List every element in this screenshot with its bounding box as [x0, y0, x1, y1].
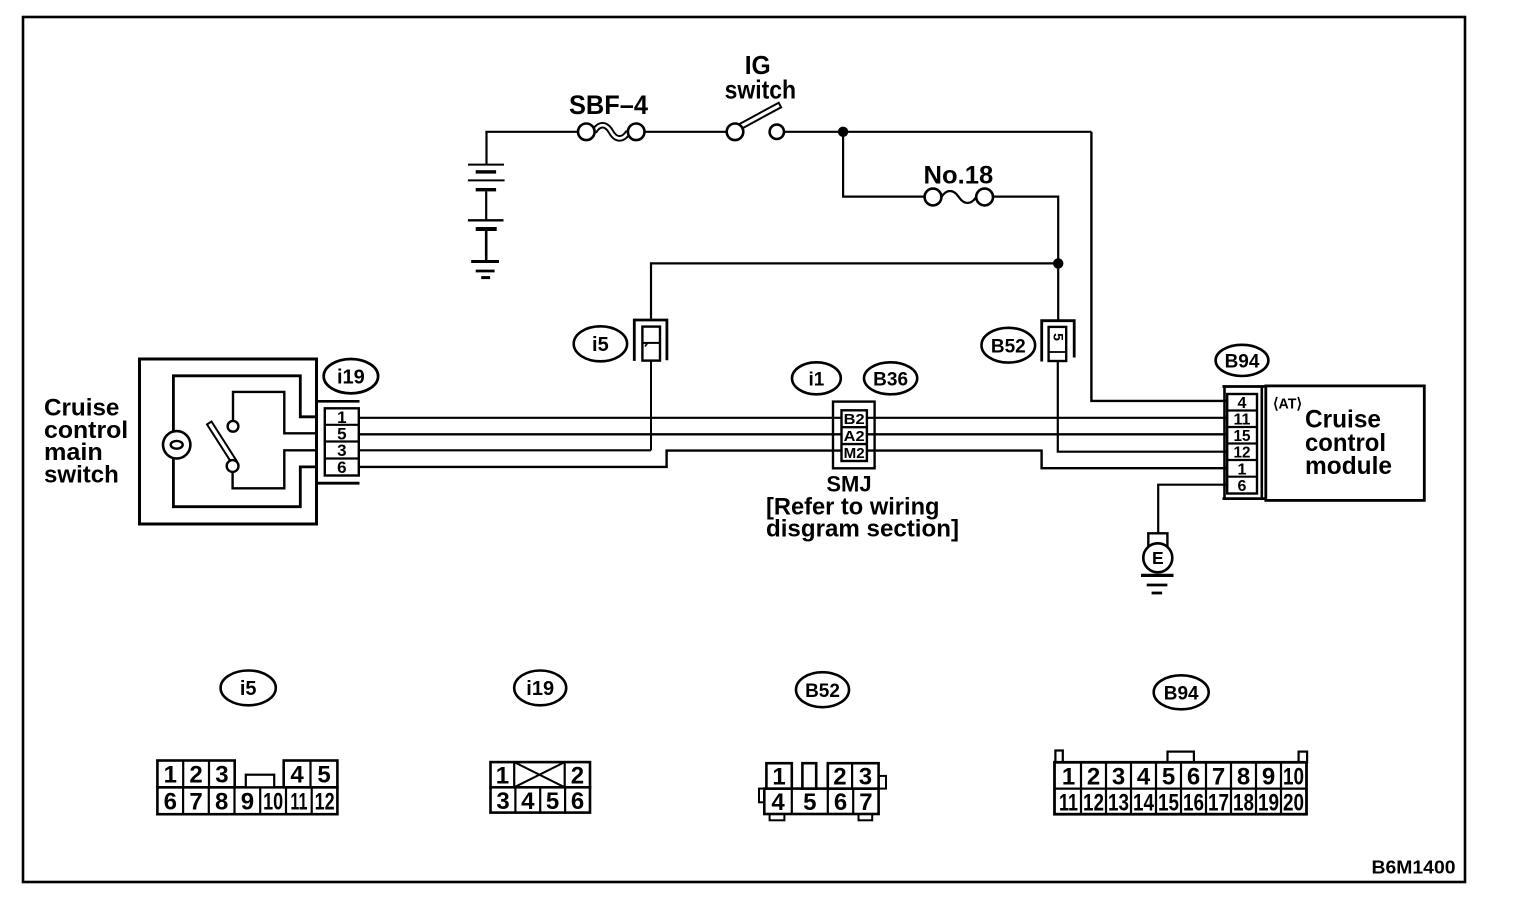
svg-text:7: 7 — [189, 789, 202, 816]
wire node down through B52 — [1057, 263, 1059, 320]
wire B52 to module pin 12 — [1058, 362, 1228, 452]
cruise control main switch outer box — [140, 359, 317, 524]
svg-text:6: 6 — [164, 789, 177, 816]
connector B52 (in-line) — [1042, 321, 1075, 362]
svg-text:6: 6 — [571, 788, 584, 815]
oval label i1 — [792, 362, 841, 394]
svg-text:SBF–4: SBF–4 — [569, 90, 648, 120]
wire module pin 6 to ground — [1158, 485, 1228, 534]
lamp (illumination bulb) — [163, 431, 190, 458]
oval label B94 — [1216, 345, 1269, 376]
svg-text:i1: i1 — [808, 370, 824, 391]
svg-text:4: 4 — [1238, 395, 1247, 412]
svg-text:switch: switch — [44, 461, 119, 488]
svg-text:5: 5 — [1162, 764, 1175, 791]
svg-text:E: E — [1152, 548, 1164, 568]
svg-text:M2: M2 — [844, 445, 865, 462]
IG switch — [725, 50, 797, 140]
svg-text:12: 12 — [1083, 790, 1104, 817]
svg-text:6: 6 — [1238, 478, 1247, 495]
svg-text:B94: B94 — [1164, 683, 1199, 704]
wire fuse to IG switch — [645, 131, 727, 133]
svg-text:B36: B36 — [873, 370, 908, 391]
wire node to i5 branch — [651, 263, 1058, 318]
svg-text:4: 4 — [1137, 764, 1151, 791]
connector B52 pinout drawing — [759, 763, 886, 820]
svg-text:4: 4 — [521, 788, 535, 815]
svg-text:7: 7 — [1212, 764, 1225, 791]
junction dot at IG output — [838, 127, 848, 137]
svg-text:disgram section]: disgram section] — [766, 516, 959, 543]
ground E — [1141, 533, 1174, 593]
oval label i19 — [324, 359, 378, 393]
switch contact circuit (pin3 path) — [233, 450, 317, 488]
connector i5 pinout drawing — [157, 761, 337, 816]
svg-text:3: 3 — [1112, 764, 1125, 791]
svg-text:A2: A2 — [844, 428, 865, 445]
svg-text:6: 6 — [1187, 764, 1200, 791]
svg-text:3: 3 — [859, 764, 872, 791]
svg-text:No.18: No.18 — [924, 162, 994, 190]
svg-text:⟨AT⟩: ⟨AT⟩ — [1273, 396, 1302, 413]
svg-text:11: 11 — [1059, 790, 1078, 817]
wire junction down to fuse No.18 — [843, 132, 925, 197]
connector B94 pin column (pins 4,11,15,12,1,6) — [1227, 394, 1257, 495]
connector B94 pinout drawing — [1055, 751, 1308, 817]
svg-text:i19: i19 — [526, 678, 554, 700]
wire IG switch to right vertical — [784, 131, 1091, 133]
svg-text:1: 1 — [772, 764, 785, 791]
svg-text:i19: i19 — [337, 367, 365, 389]
fuse No.18 — [924, 162, 994, 206]
oval label B52 — [982, 328, 1036, 363]
svg-text:19: 19 — [1258, 790, 1279, 817]
svg-text:1: 1 — [1238, 461, 1247, 478]
cruise control module box — [1266, 386, 1425, 501]
battery — [468, 132, 505, 278]
svg-text:B94: B94 — [1225, 352, 1260, 373]
svg-text:4: 4 — [771, 789, 785, 816]
svg-text:10: 10 — [263, 789, 283, 816]
svg-text:5: 5 — [1050, 333, 1066, 341]
switch contact (top) — [228, 421, 239, 432]
svg-text:5: 5 — [803, 789, 816, 816]
connector i5 (in-line) — [634, 320, 667, 361]
svg-text:3: 3 — [496, 788, 509, 815]
wire right vertical to module pin 4 — [1091, 132, 1228, 401]
svg-text:1: 1 — [164, 762, 177, 789]
switch contact (bottom) — [227, 460, 239, 472]
svg-text:10: 10 — [1283, 764, 1304, 791]
oval label B52 (bottom) — [796, 672, 849, 707]
svg-text:18: 18 — [1233, 790, 1254, 817]
wire i19 pin6 to module pin 1 — [359, 451, 1228, 469]
junction dot above B52 — [1053, 258, 1063, 268]
svg-text:switch: switch — [725, 75, 797, 105]
wire i19 pin3 to i5 branch — [359, 449, 651, 451]
wire i19 pin1 to module pin 11 — [359, 417, 1228, 419]
svg-text:2: 2 — [833, 764, 846, 791]
svg-text:i5: i5 — [240, 678, 257, 700]
svg-text:2: 2 — [1087, 764, 1100, 791]
svg-text:12: 12 — [315, 789, 335, 816]
oval label i19 (bottom) — [514, 671, 566, 706]
svg-text:9: 9 — [241, 789, 254, 816]
oval label B36 — [864, 362, 917, 394]
svg-text:15: 15 — [1234, 428, 1251, 445]
oval label i5 (bottom) — [221, 671, 276, 706]
switch inner lamp-circuit outline — [173, 376, 316, 507]
svg-text:8: 8 — [215, 789, 228, 816]
svg-text:15: 15 — [1158, 790, 1179, 817]
connector i19 pin column (pins 1,5,3,6) — [325, 408, 359, 477]
svg-text:6: 6 — [337, 458, 346, 477]
svg-text:i5: i5 — [592, 334, 609, 356]
wire i19 pin5 to module pin 15 — [359, 433, 1228, 435]
svg-text:17: 17 — [1208, 790, 1229, 817]
svg-text:1: 1 — [496, 763, 509, 790]
svg-text:B52: B52 — [991, 336, 1026, 357]
svg-text:11: 11 — [1234, 412, 1251, 429]
connector i19 bracket — [317, 401, 360, 483]
svg-text:11: 11 — [290, 789, 307, 816]
svg-text:B52: B52 — [805, 681, 840, 702]
svg-text:2: 2 — [189, 762, 202, 789]
svg-text:7: 7 — [859, 789, 872, 816]
wire i5 down to switch pin-3 line — [650, 361, 652, 450]
svg-text:6: 6 — [834, 789, 847, 816]
oval label B94 (bottom) — [1154, 675, 1209, 709]
svg-text:1: 1 — [1062, 764, 1075, 791]
oval label i5 — [574, 326, 627, 361]
svg-text:module: module — [1305, 452, 1392, 480]
connector i19 pinout drawing — [491, 762, 591, 815]
svg-text:2: 2 — [571, 763, 584, 790]
svg-text:12: 12 — [1234, 445, 1251, 462]
svg-text:5: 5 — [317, 762, 330, 789]
svg-text:5: 5 — [546, 788, 559, 815]
svg-text:16: 16 — [1183, 790, 1204, 817]
connector B94 bracket at module — [1223, 385, 1266, 500]
svg-text:13: 13 — [1108, 790, 1129, 817]
svg-text:9: 9 — [1262, 764, 1275, 791]
svg-text:3: 3 — [215, 762, 228, 789]
switch lever — [207, 422, 237, 464]
svg-text:4: 4 — [290, 762, 304, 789]
connector SMJ — [833, 402, 875, 469]
switch contact circuit (pin5 path) — [233, 392, 317, 433]
svg-text:14: 14 — [1133, 790, 1155, 817]
svg-text:20: 20 — [1283, 790, 1304, 817]
wire fuse No.18 down to node — [993, 197, 1058, 264]
fuse SBF-4 — [569, 90, 648, 140]
svg-text:B2: B2 — [844, 411, 865, 428]
svg-text:B6M1400: B6M1400 — [1372, 857, 1456, 878]
wire battery to fuse SBF-4 — [487, 132, 579, 133]
svg-text:8: 8 — [1237, 764, 1250, 791]
